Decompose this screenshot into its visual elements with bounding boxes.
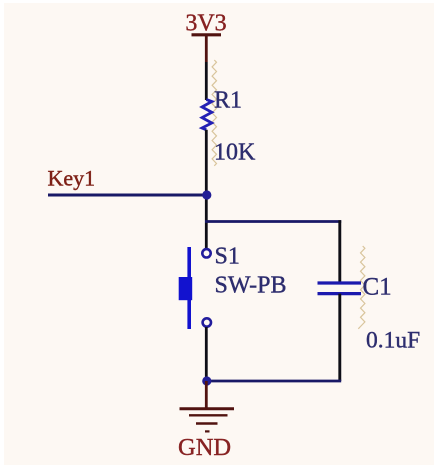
svg-text:0.1uF: 0.1uF	[366, 328, 420, 354]
capacitor C1 bottom plate	[318, 292, 362, 295]
ground stub	[205, 381, 208, 408]
junction A	[202, 190, 211, 199]
capacitor C1 top plate	[318, 281, 362, 284]
wire bottom horizontal	[207, 380, 342, 383]
svg-text:10K: 10K	[214, 140, 256, 166]
switch S1 pin2 contact	[203, 318, 211, 326]
svg-text:Key1: Key1	[48, 166, 96, 191]
junction B	[202, 376, 211, 385]
svg-text:GND: GND	[178, 434, 231, 461]
ground bar 3	[196, 422, 218, 424]
wire C1 pin2 down	[338, 294, 341, 381]
compile-mask zigzag along R1	[212, 60, 216, 166]
svg-text:SW-PB: SW-PB	[215, 273, 287, 299]
wire R1 pin2 to junction	[205, 130, 208, 195]
power port 3V3 stub	[205, 35, 208, 62]
wire S1 pin2 to junction B	[205, 327, 208, 381]
resistor R1 zigzag	[202, 100, 212, 130]
ground bar 4	[205, 430, 210, 432]
svg-text:3V3: 3V3	[185, 11, 226, 37]
switch S1 button cap	[179, 277, 193, 300]
wire junction to S1 pin1	[205, 195, 208, 250]
wire branch to C1 horizontal	[205, 220, 341, 223]
switch S1 actuator shaft	[187, 247, 191, 329]
switch S1 pin1 contact	[202, 249, 210, 257]
svg-text:R1: R1	[214, 88, 242, 114]
power port 3V3 bar	[192, 33, 222, 36]
wire 3V3 to R1 pin1	[205, 62, 208, 100]
svg-text:S1: S1	[215, 244, 240, 270]
ground bar 2	[189, 414, 228, 416]
ground bar 1	[180, 407, 235, 410]
wire Key1 horizontal	[48, 194, 207, 197]
wire branch to C1 vertical	[338, 220, 341, 283]
compile-mask zigzag along C1	[358, 246, 365, 329]
svg-text:C1: C1	[363, 274, 392, 301]
